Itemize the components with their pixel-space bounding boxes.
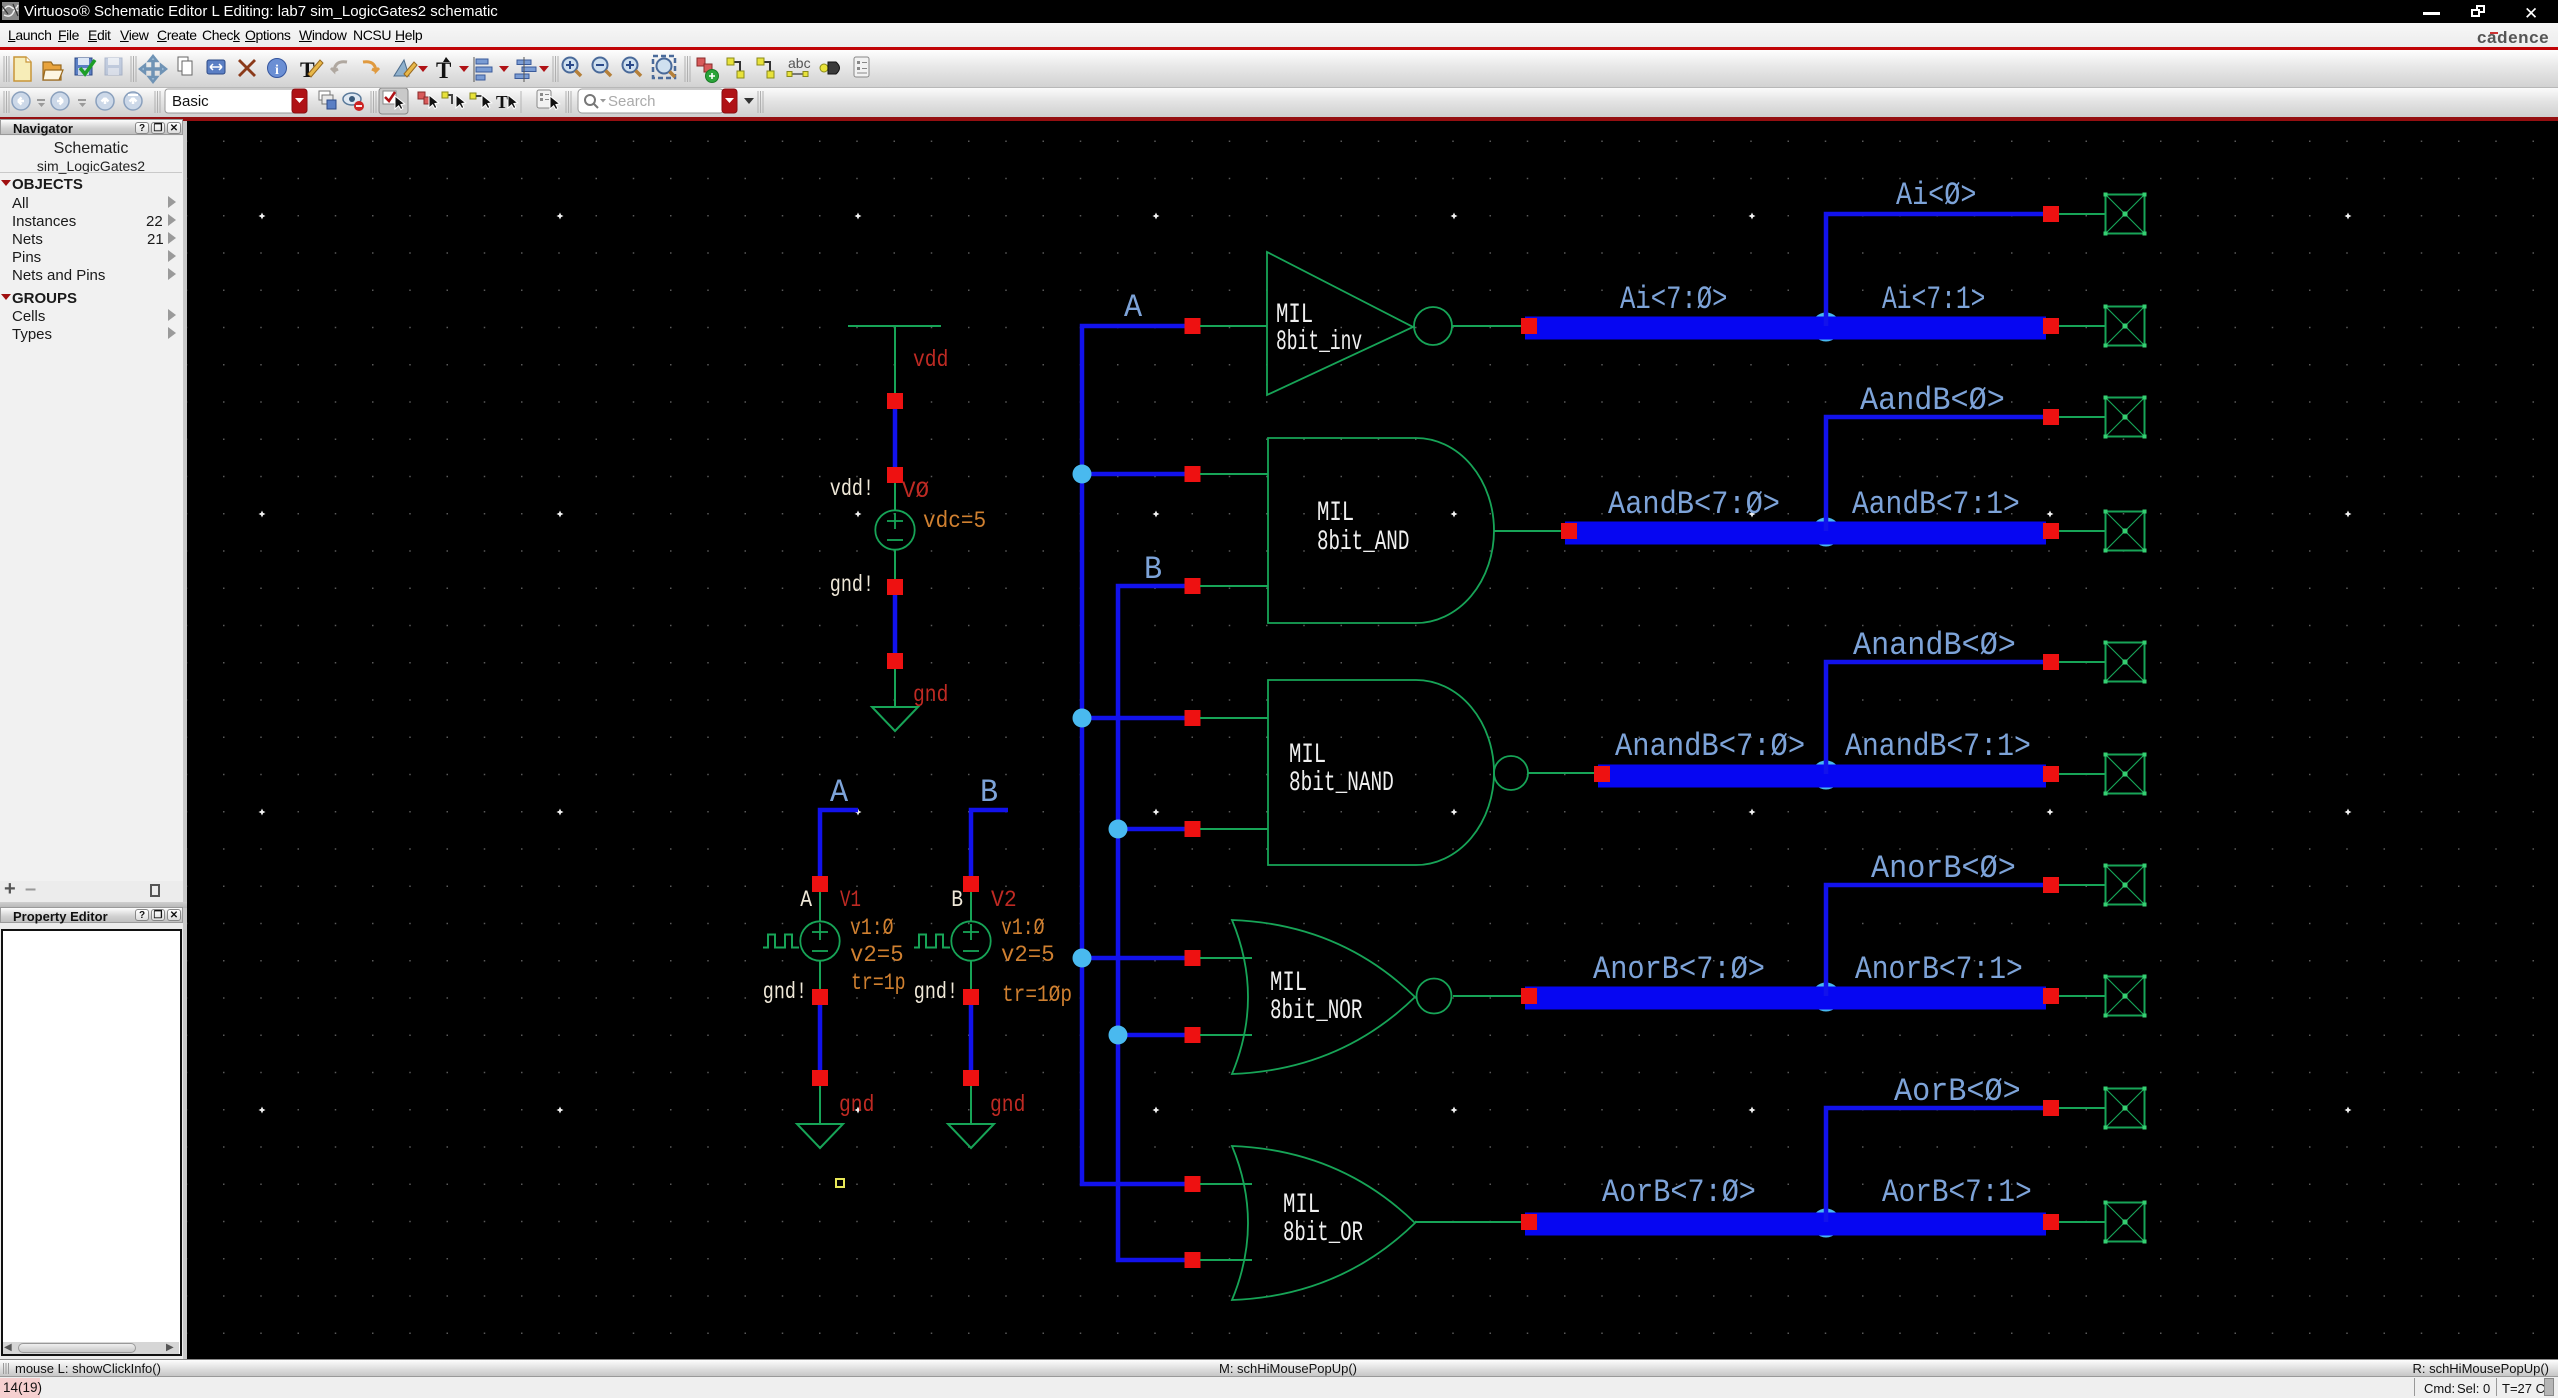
svg-text:v1:Ø: v1:Ø: [850, 915, 894, 941]
pin AorB<0> right: [2043, 1100, 2059, 1116]
output pin symbol AnorB<0>: [2106, 866, 2145, 905]
wire A to NAND in1: [1082, 716, 1192, 721]
wire stub AND in1: [1200, 473, 1268, 475]
wire to AorB<7:1> output symbol: [2059, 1221, 2105, 1223]
svg-text:B: B: [1144, 551, 1162, 588]
pin AandB<7:1> right: [2043, 523, 2059, 539]
svg-text:vdd!: vdd!: [830, 476, 874, 502]
bus Ai<7:0>: [1525, 317, 2046, 340]
output pin symbol AorB<0>: [2106, 1089, 2145, 1128]
wire stub NOR in1: [1200, 957, 1252, 959]
svg-text:8bit_inv: 8bit_inv: [1276, 327, 1362, 358]
output pin symbol AnandB<0>: [2106, 643, 2145, 682]
pin AnorB bus left: [1521, 988, 1537, 1004]
pin AorB<7:1> right: [2043, 1214, 2059, 1230]
menu bar: [0, 23, 2558, 48]
output pin symbol AnorB<7:1>: [2106, 977, 2145, 1016]
wire stub OR in1: [1200, 1183, 1252, 1185]
wire gnd (V1): [818, 997, 823, 1078]
wire net A stub: [820, 810, 858, 884]
ground symbol (V2): [948, 1124, 994, 1148]
svg-text:AandB<Ø>: AandB<Ø>: [1860, 382, 2005, 419]
svg-text:tr=1Øp: tr=1Øp: [1002, 982, 1072, 1008]
svg-text:8bit_OR: 8bit_OR: [1283, 1218, 1363, 1249]
junction Ai tap: [1812, 313, 1841, 342]
wire B to NAND in2: [1118, 827, 1192, 832]
wire AorB<0> branch: [1826, 1108, 2045, 1222]
svg-text:B: B: [951, 887, 963, 913]
wire to Ai<0> output symbol: [2059, 213, 2105, 215]
svg-text:AorB<7:1>: AorB<7:1>: [1882, 1174, 2032, 1211]
pin gnd (V1): [812, 1070, 828, 1086]
svg-text:MIL: MIL: [1289, 740, 1326, 771]
pin gnd! (V1): [812, 989, 828, 1005]
wire AND out: [1494, 530, 1561, 532]
pin AnorB<0> right: [2043, 877, 2059, 893]
wire A to AND in1: [1082, 472, 1192, 477]
pin AorB bus left: [1521, 1214, 1537, 1230]
wire OR out: [1415, 1221, 1521, 1223]
wire AnorB<0> branch: [1826, 885, 2045, 996]
wire to AnandB<0> output symbol: [2059, 661, 2105, 663]
pin B (V2): [963, 876, 979, 892]
wire stub OR in2: [1200, 1259, 1252, 1261]
property editor: [0, 907, 183, 923]
wire NAND out: [1528, 772, 1594, 774]
status bars: [0, 1359, 2558, 1377]
wire gnd (V0): [893, 587, 898, 661]
pin AandB<0> right: [2043, 409, 2059, 425]
svg-text:v1:Ø: v1:Ø: [1001, 915, 1045, 941]
wire net B vertical bus: [1118, 586, 1192, 1260]
junction AnorB tap: [1812, 983, 1841, 1012]
left panel: [0, 121, 187, 1359]
junction B/NAND: [1109, 820, 1128, 839]
svg-text:AnandB<7:1>: AnandB<7:1>: [1845, 728, 2031, 765]
svg-text:gnd!: gnd!: [763, 979, 807, 1005]
pin AandB bus left: [1561, 523, 1577, 539]
output pin symbol Ai<0>: [2106, 195, 2145, 234]
pin AND in1: [1185, 466, 1201, 482]
wire INV out: [1452, 325, 1521, 327]
wire B to NOR in2: [1118, 1033, 1192, 1038]
svg-text:gnd!: gnd!: [914, 979, 958, 1005]
wire to AnorB<7:1> output symbol: [2059, 995, 2105, 997]
pin AnorB<7:1> right: [2043, 988, 2059, 1004]
origin marker: [836, 1179, 844, 1187]
+/- row: [4, 883, 18, 897]
wire stub AND in2: [1200, 585, 1268, 587]
svg-text:A: A: [800, 887, 812, 913]
wire to AandB<0> output symbol: [2059, 416, 2105, 418]
svg-text:AorB<7:Ø>: AorB<7:Ø>: [1602, 1174, 1756, 1211]
pin Ai<0> right: [2043, 206, 2059, 222]
bus AorB<7:0>: [1525, 1213, 2046, 1236]
svg-text:Search: Search: [608, 93, 656, 110]
svg-text:i: i: [275, 63, 279, 78]
svg-text:B: B: [980, 774, 998, 811]
svg-text:gnd!: gnd!: [830, 572, 874, 598]
svg-text:V2: V2: [991, 887, 1017, 913]
svg-text:A: A: [1124, 289, 1143, 326]
inverter U1 MIL 8bit_inv: [1267, 252, 1452, 395]
svg-text:vdd: vdd: [913, 347, 948, 373]
pin NAND in1: [1185, 710, 1201, 726]
svg-text:8bit_AND: 8bit_AND: [1317, 527, 1409, 558]
junction AandB tap: [1812, 518, 1841, 547]
wire stub NAND in2: [1200, 828, 1268, 830]
wire A to NOR in1: [1082, 956, 1192, 961]
pin V0 plus: [887, 393, 903, 409]
PE horizontal scrollbar: [3, 1342, 179, 1354]
svg-text:abc: abc: [788, 55, 811, 71]
output pin symbol AandB<7:1>: [2106, 512, 2145, 551]
wire AandB<0> branch: [1826, 417, 2045, 531]
NAND gate U3 MIL 8bit_NAND: [1268, 680, 1494, 865]
wire to Ai<7:1> output symbol: [2059, 325, 2105, 327]
svg-text:VØ: VØ: [902, 478, 929, 504]
svg-text:T: T: [496, 92, 508, 112]
pin INV in: [1185, 318, 1201, 334]
pin AnandB bus left: [1594, 766, 1610, 782]
svg-text:MIL: MIL: [1317, 498, 1354, 529]
svg-text:AnandB<Ø>: AnandB<Ø>: [1853, 627, 2016, 664]
voltage source V2: [951, 921, 990, 960]
svg-text:v2=5: v2=5: [1001, 942, 1055, 968]
vdd rail symbol: [848, 326, 941, 394]
wire gnd (V2): [969, 997, 974, 1078]
svg-text:gnd: gnd: [913, 682, 948, 708]
pin vdd! (V0): [887, 467, 903, 483]
bus AnorB<7:0>: [1525, 987, 2046, 1010]
pin Ai bus left: [1521, 318, 1537, 334]
output pin symbol AnandB<7:1>: [2106, 755, 2145, 794]
junction A/NOR: [1073, 949, 1092, 968]
AND gate U2 MIL 8bit_AND: [1268, 438, 1494, 623]
pin OR in2: [1185, 1252, 1201, 1268]
wire net A vertical bus: [1082, 326, 1192, 1184]
junction A/NAND: [1073, 709, 1092, 728]
junction B/NOR: [1109, 1026, 1128, 1045]
output pin symbol Ai<7:1>: [2106, 307, 2145, 346]
wire to AorB<0> output symbol: [2059, 1107, 2105, 1109]
svg-text:AnorB<7:1>: AnorB<7:1>: [1855, 951, 2023, 988]
NOR gate U4 MIL 8bit_NOR: [1232, 920, 1415, 1074]
pin AND in2: [1185, 578, 1201, 594]
pin NAND in2: [1185, 821, 1201, 837]
junction A/AND: [1073, 465, 1092, 484]
svg-text:Ai<7:Ø>: Ai<7:Ø>: [1620, 281, 1728, 318]
svg-text:v2=5: v2=5: [850, 942, 904, 968]
wire vdd: [893, 401, 898, 475]
pin NOR in1: [1185, 950, 1201, 966]
svg-text:Ai<Ø>: Ai<Ø>: [1896, 177, 1976, 214]
navigator: [0, 119, 183, 135]
pin gnd (V2): [963, 1070, 979, 1086]
svg-text:gnd: gnd: [990, 1092, 1025, 1118]
wire stub NAND in1: [1200, 717, 1268, 719]
bus AandB<7:0>: [1565, 522, 2046, 545]
pin AnandB<7:1> right: [2043, 766, 2059, 782]
wire to AnorB<0> output symbol: [2059, 884, 2105, 886]
voltage source V1: [800, 921, 839, 960]
svg-text:AandB<7:Ø>: AandB<7:Ø>: [1608, 486, 1780, 523]
wire stub INV in: [1200, 325, 1267, 327]
wire NOR out: [1453, 995, 1521, 997]
svg-text:V1: V1: [840, 887, 861, 913]
pin gnd! (V2): [963, 989, 979, 1005]
ground symbol (V1): [797, 1124, 843, 1148]
svg-text:AandB<7:1>: AandB<7:1>: [1852, 486, 2020, 523]
svg-text:8bit_NAND: 8bit_NAND: [1289, 768, 1394, 799]
wire net B stub: [971, 810, 1008, 884]
bus AnandB<7:0>: [1598, 765, 2046, 788]
pin gnd! (V0): [887, 579, 903, 595]
wire AnandB<0> branch: [1826, 662, 2045, 774]
pin NOR in2: [1185, 1027, 1201, 1043]
output pin symbol AandB<0>: [2106, 398, 2145, 437]
junction AnandB tap: [1812, 761, 1841, 790]
junction AorB tap: [1812, 1209, 1841, 1238]
svg-text:A: A: [830, 774, 849, 811]
wire stub NOR in2: [1200, 1034, 1252, 1036]
svg-text:AorB<Ø>: AorB<Ø>: [1894, 1073, 2021, 1110]
pin OR in1: [1185, 1176, 1201, 1192]
pin Ai<7:1> right: [2043, 318, 2059, 334]
svg-text:Ai<7:1>: Ai<7:1>: [1882, 281, 1985, 318]
svg-text:tr=1p: tr=1p: [851, 970, 906, 996]
output pin symbol AorB<7:1>: [2106, 1203, 2145, 1242]
svg-text:vdc=5: vdc=5: [923, 508, 986, 534]
voltage source V0: [875, 510, 914, 549]
OR gate U5 MIL 8bit_OR: [1232, 1146, 1415, 1300]
svg-text:AnorB<7:Ø>: AnorB<7:Ø>: [1593, 951, 1765, 988]
pin A (V1): [812, 876, 828, 892]
ground symbol (V0): [872, 707, 918, 731]
svg-text:Basic: Basic: [172, 93, 209, 110]
svg-text:gnd: gnd: [839, 1092, 874, 1118]
svg-text:AnandB<7:Ø>: AnandB<7:Ø>: [1615, 728, 1805, 765]
svg-text:8bit_NOR: 8bit_NOR: [1270, 996, 1363, 1027]
wire to AnandB<7:1> output symbol: [2059, 773, 2105, 775]
wire to AandB<7:1> output symbol: [2059, 530, 2105, 532]
svg-text:MIL: MIL: [1270, 968, 1307, 999]
pin AnandB<0> right: [2043, 654, 2059, 670]
window title bar: [0, 0, 2558, 23]
pin gnd (V0): [887, 653, 903, 669]
wire Ai<0> branch: [1826, 214, 2045, 326]
svg-text:MIL: MIL: [1283, 1190, 1320, 1221]
svg-text:AnorB<Ø>: AnorB<Ø>: [1871, 850, 2016, 887]
